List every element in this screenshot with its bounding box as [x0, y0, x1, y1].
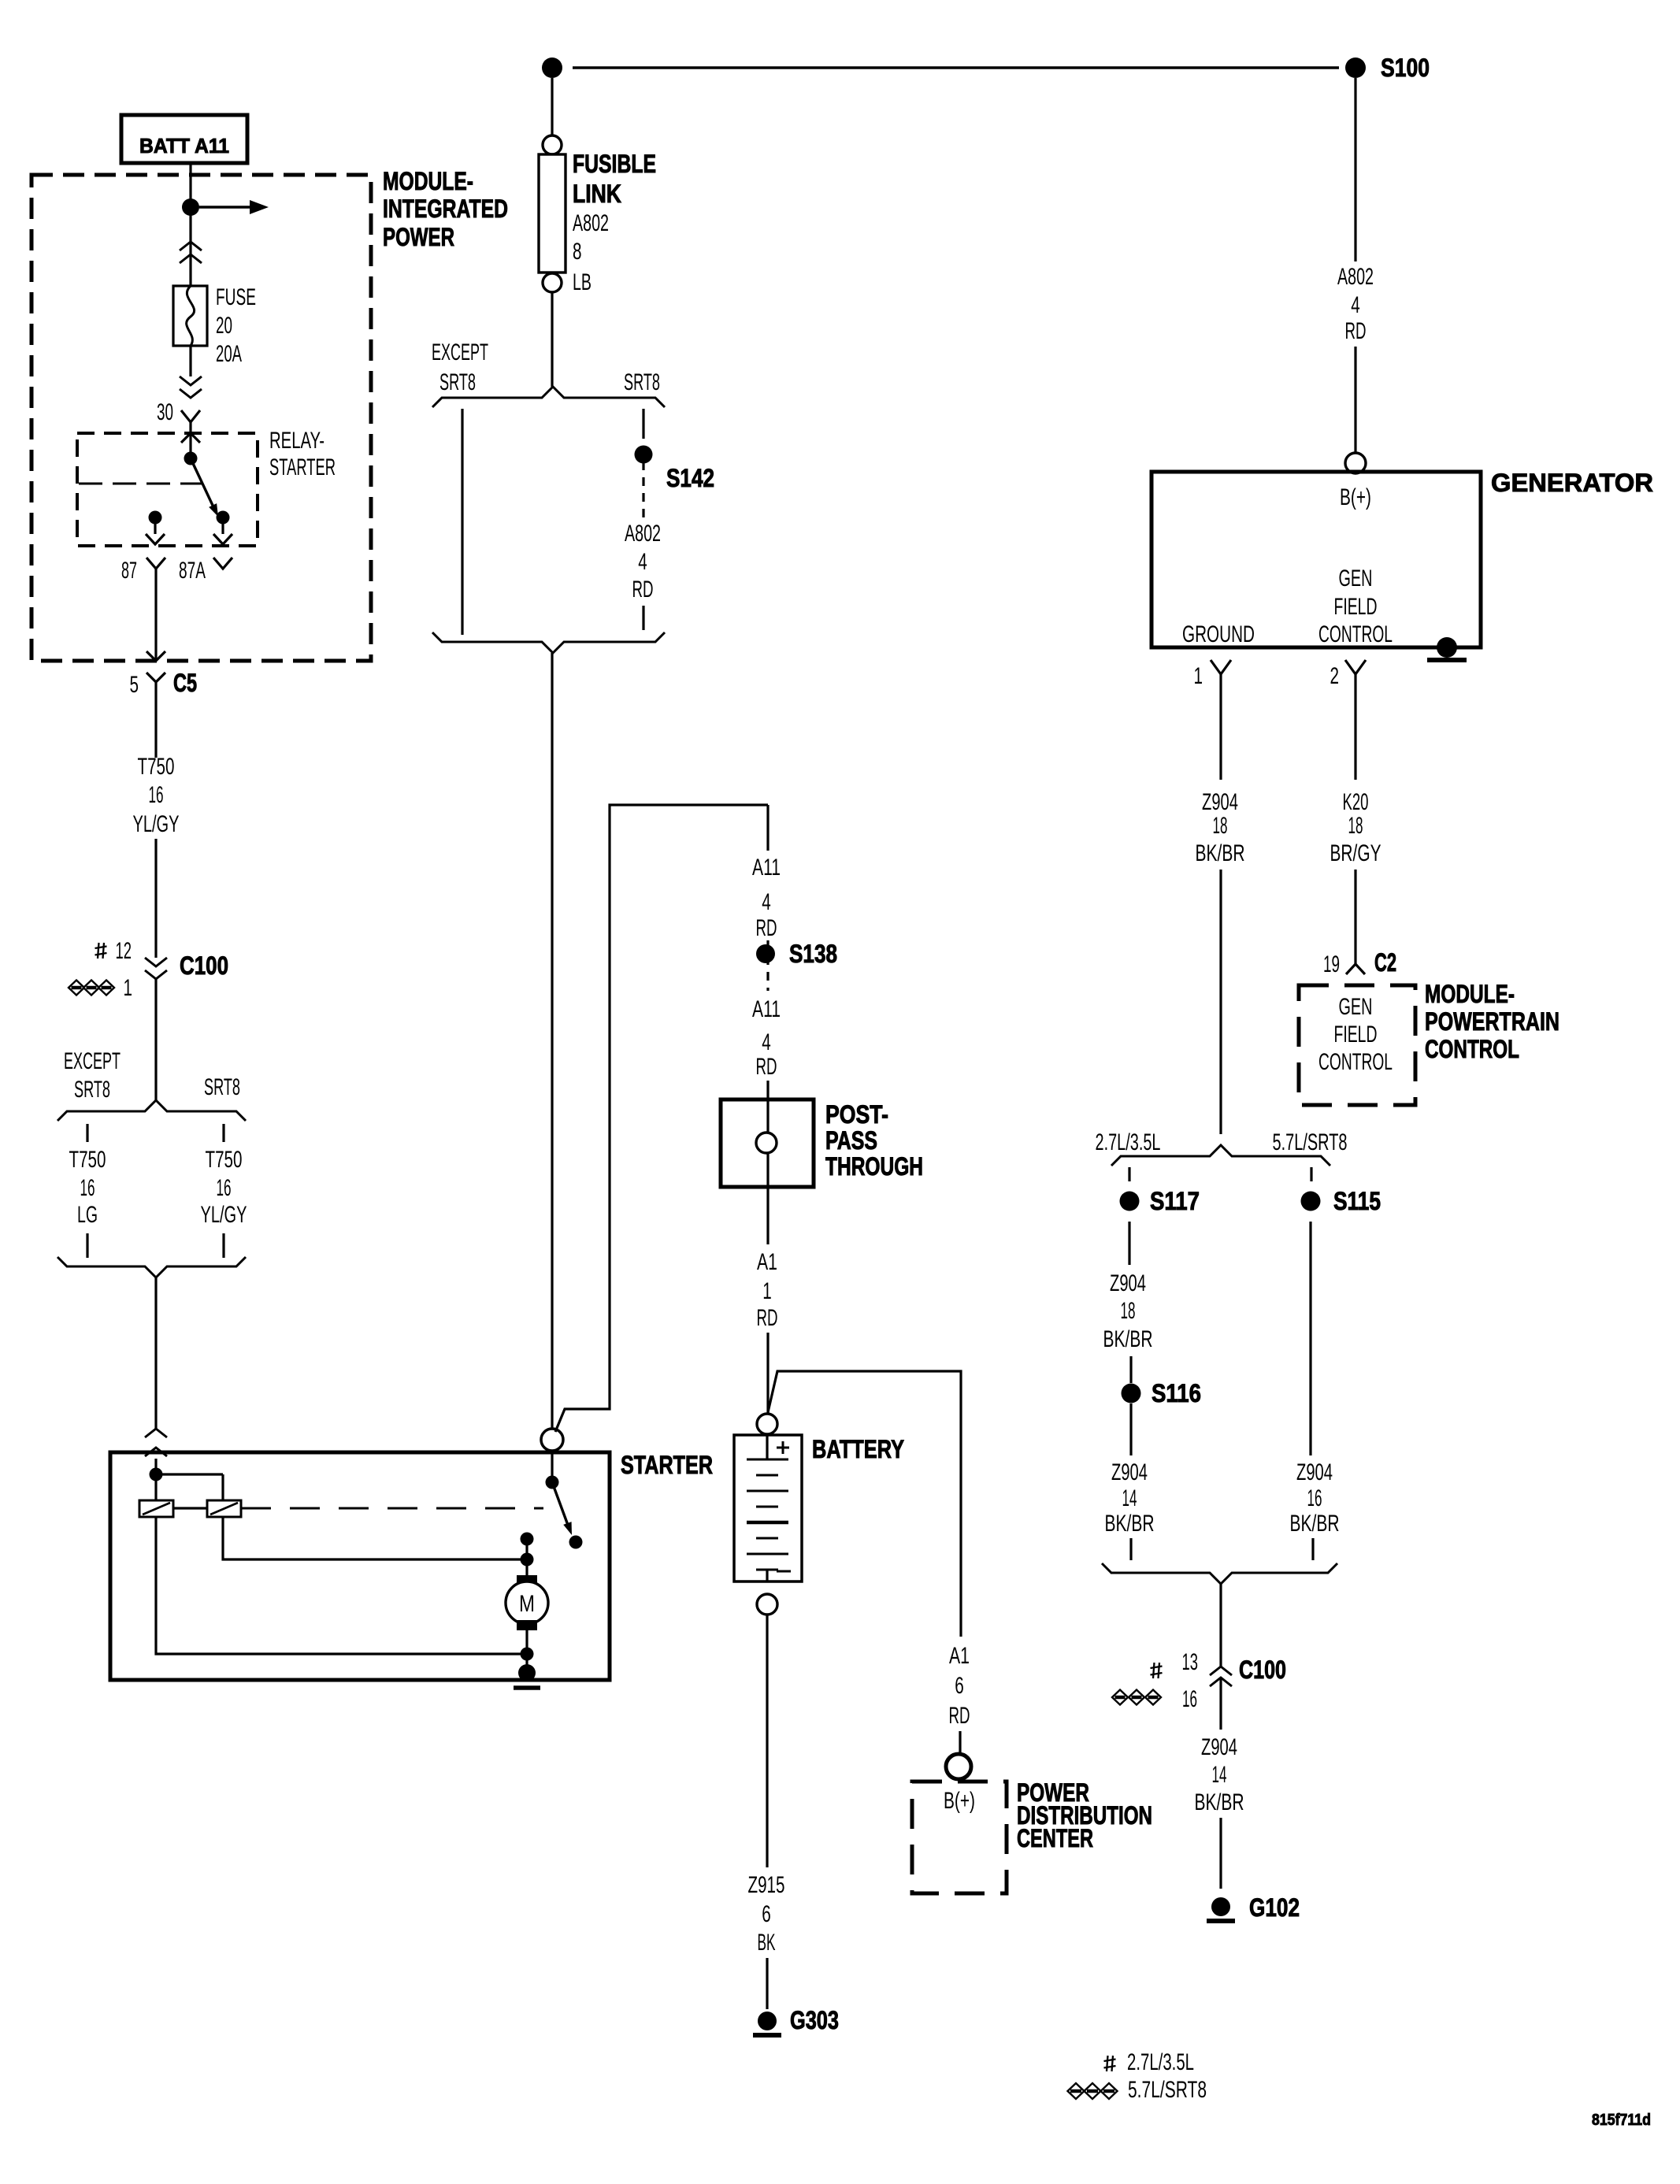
svg-text:13: 13: [1182, 1649, 1199, 1675]
svg-text:BR/GY: BR/GY: [1330, 840, 1381, 866]
svg-text:FIELD: FIELD: [1334, 1022, 1378, 1048]
svg-text:YL/GY: YL/GY: [201, 1202, 247, 1228]
svg-text:GEN: GEN: [1339, 565, 1373, 591]
svg-text:SRT8: SRT8: [204, 1074, 240, 1100]
svg-text:A1: A1: [949, 1643, 970, 1669]
svg-text:C100: C100: [1239, 1656, 1286, 1684]
svg-text:16: 16: [1307, 1485, 1322, 1511]
svg-text:BK/BR: BK/BR: [1196, 840, 1245, 866]
svg-text:SRT8: SRT8: [439, 369, 476, 395]
svg-text:20: 20: [216, 313, 232, 339]
svg-text:S138: S138: [789, 940, 837, 968]
svg-text:RD: RD: [949, 1703, 970, 1729]
svg-text:1: 1: [124, 975, 133, 1001]
svg-text:Z904: Z904: [1202, 789, 1238, 815]
svg-text:6: 6: [955, 1673, 964, 1699]
svg-text:GENERATOR: GENERATOR: [1491, 469, 1653, 497]
svg-text:A11: A11: [752, 855, 781, 881]
svg-text:EXCEPT: EXCEPT: [64, 1048, 121, 1074]
svg-text:LB: LB: [573, 269, 592, 295]
svg-text:M: M: [519, 1591, 535, 1617]
svg-text:B(+): B(+): [944, 1788, 975, 1814]
svg-text:STARTER: STARTER: [269, 454, 336, 480]
svg-text:T750: T750: [206, 1147, 243, 1173]
svg-text:POWER: POWER: [383, 223, 454, 251]
svg-text:BK: BK: [758, 1930, 776, 1956]
svg-text:STARTER: STARTER: [621, 1451, 713, 1479]
svg-text:S116: S116: [1152, 1379, 1201, 1407]
svg-text:4: 4: [638, 549, 647, 575]
svg-text:2.7L/3.5L: 2.7L/3.5L: [1127, 2049, 1194, 2075]
svg-text:Z904: Z904: [1111, 1459, 1148, 1485]
svg-text:BATTERY: BATTERY: [812, 1435, 904, 1463]
svg-text:CENTER: CENTER: [1017, 1824, 1093, 1852]
svg-text:30: 30: [157, 399, 173, 425]
svg-text:C5: C5: [173, 669, 197, 697]
svg-text:Z904: Z904: [1110, 1270, 1146, 1296]
svg-text:S142: S142: [666, 464, 714, 492]
svg-text:A802: A802: [625, 521, 661, 547]
svg-text:BK/BR: BK/BR: [1105, 1511, 1155, 1537]
svg-text:EXCEPT: EXCEPT: [432, 339, 488, 365]
svg-text:8: 8: [573, 239, 582, 265]
svg-text:G102: G102: [1249, 1893, 1300, 1922]
svg-text:16: 16: [80, 1175, 95, 1201]
svg-text:4: 4: [762, 889, 771, 915]
svg-text:RD: RD: [632, 577, 654, 603]
svg-text:A11: A11: [752, 996, 781, 1022]
svg-text:RD: RD: [1345, 318, 1367, 344]
svg-text:2.7L/3.5L: 2.7L/3.5L: [1096, 1129, 1161, 1155]
svg-text:SRT8: SRT8: [74, 1077, 110, 1103]
svg-text:2: 2: [1330, 663, 1340, 689]
svg-text:20A: 20A: [216, 341, 242, 367]
svg-text:SRT8: SRT8: [624, 369, 660, 395]
svg-text:FUSIBLE: FUSIBLE: [573, 150, 656, 178]
svg-text:87A: 87A: [179, 558, 206, 584]
svg-text:GEN: GEN: [1339, 994, 1373, 1020]
svg-text:16: 16: [149, 782, 164, 808]
svg-text:THROUGH: THROUGH: [825, 1152, 923, 1181]
svg-text:1: 1: [1194, 663, 1203, 689]
svg-text:A1: A1: [757, 1249, 777, 1275]
svg-text:LINK: LINK: [573, 180, 621, 208]
svg-text:C2: C2: [1374, 948, 1396, 977]
svg-text:K20: K20: [1343, 789, 1369, 815]
svg-text:FIELD: FIELD: [1334, 594, 1378, 620]
svg-text:4: 4: [762, 1029, 771, 1055]
svg-text:A802: A802: [1337, 264, 1374, 290]
svg-text:S100: S100: [1381, 54, 1430, 82]
svg-text:BK/BR: BK/BR: [1290, 1511, 1340, 1537]
svg-text:RELAY-: RELAY-: [269, 428, 325, 454]
svg-text:RD: RD: [757, 1305, 778, 1331]
svg-text:S117: S117: [1150, 1187, 1200, 1215]
svg-text:RD: RD: [756, 1054, 777, 1080]
svg-text:18: 18: [1121, 1298, 1136, 1324]
svg-text:LG: LG: [77, 1202, 98, 1228]
svg-text:BATT A11: BATT A11: [139, 134, 229, 158]
svg-text:CONTROL: CONTROL: [1318, 1049, 1393, 1075]
svg-text:S115: S115: [1333, 1187, 1381, 1215]
svg-text:MODULE-: MODULE-: [383, 167, 473, 195]
svg-text:FUSE: FUSE: [216, 284, 256, 310]
svg-text:14: 14: [1212, 1762, 1227, 1788]
svg-text:5.7L/SRT8: 5.7L/SRT8: [1273, 1129, 1348, 1155]
svg-text:Z915: Z915: [748, 1872, 785, 1898]
svg-text:5.7L/SRT8: 5.7L/SRT8: [1128, 2077, 1207, 2103]
svg-text:Z904: Z904: [1201, 1734, 1237, 1760]
svg-text:YL/GY: YL/GY: [133, 811, 180, 837]
svg-text:INTEGRATED: INTEGRATED: [383, 195, 508, 223]
svg-text:16: 16: [217, 1175, 232, 1201]
svg-text:CONTROL: CONTROL: [1318, 621, 1393, 647]
svg-text:BK/BR: BK/BR: [1195, 1789, 1244, 1815]
svg-text:BK/BR: BK/BR: [1103, 1326, 1153, 1352]
svg-text:18: 18: [1348, 813, 1363, 839]
svg-text:GROUND: GROUND: [1182, 621, 1255, 647]
svg-text:1: 1: [762, 1278, 772, 1304]
svg-text:87: 87: [121, 558, 137, 584]
svg-text:T750: T750: [138, 754, 175, 780]
svg-text:16: 16: [1182, 1686, 1197, 1712]
svg-text:6: 6: [762, 1901, 771, 1927]
svg-text:POST-: POST-: [825, 1100, 888, 1129]
svg-text:4: 4: [1351, 292, 1360, 318]
svg-text:Z904: Z904: [1296, 1459, 1333, 1485]
svg-text:CONTROL: CONTROL: [1425, 1035, 1519, 1063]
svg-text:B(+): B(+): [1340, 484, 1371, 510]
svg-text:G303: G303: [790, 2006, 839, 2034]
svg-text:A802: A802: [573, 210, 609, 236]
svg-text:C100: C100: [180, 951, 228, 980]
svg-text:19: 19: [1323, 951, 1340, 977]
svg-text:18: 18: [1213, 813, 1228, 839]
svg-text:12: 12: [116, 938, 132, 964]
svg-text:RD: RD: [756, 915, 777, 941]
svg-text:POWERTRAIN: POWERTRAIN: [1425, 1007, 1559, 1036]
svg-text:815f711d: 815f711d: [1592, 2112, 1651, 2129]
svg-text:5: 5: [130, 672, 139, 698]
svg-text:14: 14: [1122, 1485, 1137, 1511]
svg-text:T750: T750: [69, 1147, 106, 1173]
svg-text:MODULE-: MODULE-: [1425, 980, 1515, 1008]
svg-text:PASS: PASS: [825, 1126, 877, 1155]
